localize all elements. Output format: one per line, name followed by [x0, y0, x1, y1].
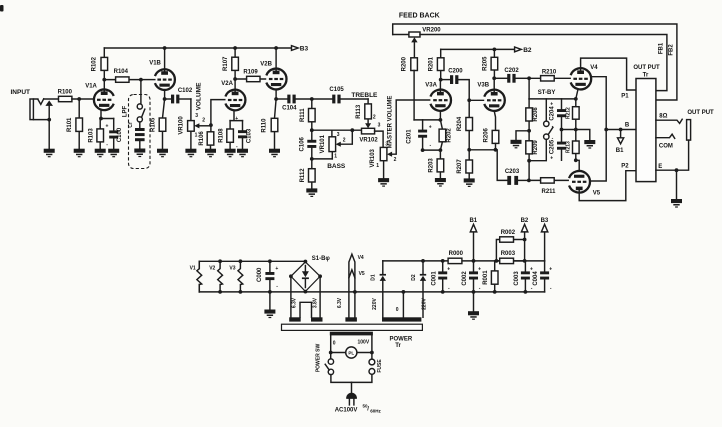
resistor R208	[526, 99, 539, 131]
node V1B cathode	[163, 97, 167, 101]
svg-text:Tr: Tr	[395, 343, 401, 349]
wire V4 cathode lead	[576, 89, 578, 99]
svg-text:2: 2	[343, 137, 346, 143]
svg-text:R201: R201	[429, 56, 435, 71]
wire 8-ohm tap	[656, 119, 682, 123]
node screen tie	[604, 128, 608, 132]
svg-text:V2: V2	[209, 266, 215, 272]
wiper arrow into VR102	[365, 123, 371, 128]
terminal B3	[544, 232, 546, 261]
switch ST-BY	[529, 99, 553, 161]
svg-text:VR101: VR101	[320, 134, 326, 153]
svg-text:R200: R200	[401, 56, 407, 71]
svg-text:R208: R208	[533, 107, 539, 122]
svg-text:2: 2	[373, 115, 376, 121]
svg-text:C100: C100	[117, 127, 123, 142]
svg-text:BASS: BASS	[327, 163, 346, 170]
svg-text:R100: R100	[58, 89, 73, 95]
input jack	[30, 99, 59, 120]
svg-text:R102: R102	[91, 56, 97, 71]
junction primary left	[329, 351, 333, 355]
wire to ground	[48, 120, 50, 149]
resistor R207	[457, 150, 472, 179]
svg-text:C103: C103	[247, 128, 253, 143]
node V5 grid network	[527, 179, 531, 183]
ground R101	[74, 149, 85, 158]
terminal B1	[473, 232, 475, 261]
svg-text:R002: R002	[501, 230, 516, 236]
ground standby	[511, 140, 522, 149]
junction R002 left	[495, 259, 499, 263]
wire bass node line	[312, 129, 362, 131]
ground PSU	[468, 311, 479, 320]
capacitor C105	[312, 87, 368, 103]
svg-text:R109: R109	[243, 69, 258, 75]
resistor R211	[529, 178, 568, 195]
B1 arrow terminal	[620, 130, 622, 138]
rectifier S1-B bridge	[291, 256, 331, 292]
svg-text:1: 1	[334, 154, 337, 160]
svg-text:LPF: LPF	[122, 106, 128, 118]
svg-text:3: 3	[195, 113, 198, 119]
svg-text:R112: R112	[300, 168, 306, 183]
ground C000	[264, 310, 275, 319]
svg-text:E: E	[658, 164, 662, 170]
svg-text:VR102: VR102	[359, 137, 378, 143]
svg-text:PL: PL	[348, 350, 354, 355]
switch LPF	[137, 104, 145, 122]
wire jack sleeve	[48, 106, 50, 120]
svg-text:V4: V4	[590, 65, 598, 71]
svg-text:C106: C106	[299, 136, 305, 151]
wire V2A cathode	[230, 110, 242, 120]
ground output	[671, 199, 682, 208]
resistor R107	[223, 48, 238, 79]
svg-text:V2B: V2B	[260, 61, 272, 67]
node V1A plate	[102, 78, 106, 82]
svg-text:C001: C001	[431, 271, 437, 286]
svg-text:+: +	[447, 266, 450, 272]
capacitor C001	[431, 261, 450, 292]
wire 6.3V/3.8V series link	[300, 302, 312, 317]
junction C000 bottom	[268, 290, 272, 294]
wire B+ rail	[383, 260, 545, 262]
resistor R202	[439, 120, 452, 150]
ground C100	[108, 149, 119, 158]
node R107 rail	[233, 46, 237, 50]
svg-text:Tr: Tr	[643, 72, 649, 78]
svg-text:FEED BACK: FEED BACK	[399, 12, 440, 19]
wire wiper to V2A grid	[211, 100, 225, 126]
wire V2A plate	[234, 79, 236, 90]
capacitor C200	[441, 68, 470, 100]
svg-text:AC100V: AC100V	[335, 407, 358, 413]
resistor R111	[300, 99, 315, 130]
resistor R100	[58, 89, 73, 101]
svg-text:1: 1	[195, 132, 198, 138]
svg-text:C105: C105	[329, 87, 344, 93]
junction R002 right	[523, 238, 527, 242]
svg-text:TREBLE: TREBLE	[351, 92, 378, 99]
svg-text:3.8V: 3.8V	[313, 297, 319, 308]
junction rail V2 bottom	[218, 290, 222, 294]
heater V1	[197, 261, 202, 292]
svg-text:R207: R207	[457, 159, 463, 174]
junction C001 top	[441, 259, 445, 263]
junction centre tap	[402, 290, 406, 294]
junction C000 top	[268, 259, 272, 263]
svg-text:R106: R106	[199, 131, 205, 146]
ground R105	[157, 149, 168, 158]
wire HT centre tap 0	[402, 292, 404, 317]
wire V4 screen	[591, 77, 606, 130]
resistor R204	[457, 100, 472, 150]
svg-text:2: 2	[394, 157, 397, 163]
wire E tap	[656, 140, 689, 170]
svg-text:D2: D2	[411, 274, 417, 281]
svg-text:POWER SW: POWER SW	[315, 344, 321, 373]
capacitor C000	[257, 261, 278, 292]
ground R103	[95, 149, 106, 158]
wire to V1B grid	[141, 79, 155, 81]
node B3 supply rail	[104, 47, 291, 49]
junction bridge AC2	[318, 274, 322, 278]
heater V3	[238, 261, 243, 292]
wire C000 ground stem	[269, 292, 271, 310]
svg-text:R210: R210	[542, 70, 557, 76]
svg-text:B3: B3	[300, 45, 309, 52]
junction rail V3 bottom	[239, 290, 243, 294]
svg-text:VR200: VR200	[422, 27, 441, 33]
winding 220-0-220	[382, 317, 421, 321]
svg-text:VR100: VR100	[179, 116, 185, 135]
svg-text:R001: R001	[483, 270, 489, 285]
svg-text:+: +	[478, 266, 481, 272]
junction rail V2 top	[218, 259, 222, 263]
node E ground	[675, 168, 679, 172]
potentiometer VR100 volume	[179, 99, 211, 149]
node VR101 wiper tie	[350, 128, 354, 132]
resistor R106	[199, 125, 214, 149]
wire R100 to V1A grid	[72, 98, 94, 100]
capacitor C103	[235, 116, 252, 150]
wire cathode ground bus	[562, 130, 590, 141]
jack tip contact arrow	[45, 100, 53, 106]
resistor R108	[218, 121, 233, 149]
wire ground stem	[473, 292, 475, 311]
node V4 cathode	[574, 97, 578, 101]
resistor R104	[104, 69, 141, 82]
wire V3A cathode	[414, 111, 440, 120]
svg-text:C201: C201	[406, 129, 412, 144]
resistor R109	[235, 69, 265, 81]
resistor R209	[526, 131, 539, 181]
svg-text:60Hz: 60Hz	[370, 409, 381, 414]
node jack sleeve	[47, 118, 51, 122]
capacitor C201	[406, 120, 431, 150]
capacitor C102	[165, 88, 193, 103]
B2 arrow terminal	[515, 47, 522, 52]
svg-text:+: +	[550, 155, 553, 161]
ground R112	[306, 188, 317, 197]
svg-text:B3: B3	[541, 218, 549, 224]
node bass bottom	[310, 157, 314, 161]
node standby bottom	[527, 159, 531, 163]
svg-text:MASTER VOLUME: MASTER VOLUME	[388, 96, 394, 149]
ground VR100	[185, 149, 196, 158]
svg-text:6.3V: 6.3V	[291, 297, 297, 308]
svg-text:C004: C004	[533, 271, 539, 286]
node PI divider	[467, 148, 471, 152]
wire into LPF	[140, 80, 142, 104]
svg-text:V2A: V2A	[221, 81, 233, 87]
svg-text:COM: COM	[659, 143, 673, 149]
svg-text:3: 3	[337, 132, 340, 138]
svg-text:+: +	[235, 116, 238, 122]
svg-text:ST-BY: ST-BY	[538, 90, 556, 96]
svg-text:FB2: FB2	[669, 44, 675, 56]
node VR100 wiper	[209, 123, 213, 127]
junction B1 node	[472, 259, 476, 263]
potentiometer VR103 master volume	[370, 100, 430, 178]
resistor R101	[67, 99, 82, 149]
svg-text:C104: C104	[282, 105, 297, 111]
junction C003 bottom	[524, 290, 528, 294]
svg-text:VOLUME: VOLUME	[195, 82, 202, 110]
junction D2 rail	[421, 259, 425, 263]
svg-text:R206: R206	[484, 127, 490, 142]
wire V5 screen	[590, 130, 606, 182]
resistor R112	[300, 159, 315, 189]
svg-text:D1: D1	[371, 274, 377, 281]
resistor R210	[529, 70, 570, 82]
pentode V4	[571, 65, 599, 90]
wire PI node	[469, 150, 507, 181]
junction primary right	[370, 351, 374, 355]
svg-text:0: 0	[333, 340, 336, 346]
node B2 supply rail	[441, 48, 515, 50]
capacitor C106	[299, 130, 316, 159]
capacitor C203	[505, 169, 529, 185]
wire PSU ground rail	[199, 291, 544, 293]
svg-text:C204: C204	[550, 106, 556, 121]
svg-text:R211: R211	[541, 189, 556, 195]
svg-text:+: +	[429, 124, 432, 130]
wire V4 plate to P1	[581, 58, 636, 90]
svg-text:8Ω: 8Ω	[659, 113, 667, 119]
wire V3B plate	[493, 78, 495, 89]
wire heater DC+ rail	[199, 261, 305, 292]
resistor R201	[429, 49, 444, 79]
svg-text:C202: C202	[504, 68, 519, 74]
svg-text:B1: B1	[469, 218, 477, 224]
wire feedback FB2 loop	[393, 24, 677, 100]
node R205 rail	[493, 48, 497, 52]
svg-text:V1B: V1B	[149, 60, 161, 66]
svg-text:FB1: FB1	[658, 42, 664, 54]
resistor R000	[448, 251, 464, 264]
triode V2B	[260, 61, 286, 89]
wire V3A plate lead	[439, 80, 441, 90]
pilot lamp PL	[331, 347, 372, 358]
svg-text:C203: C203	[505, 169, 520, 175]
svg-text:+: +	[549, 266, 552, 272]
svg-text:V1: V1	[190, 266, 196, 272]
svg-text:R108: R108	[218, 128, 224, 143]
LPF dashed enclosure	[129, 95, 151, 169]
output jack	[687, 120, 691, 141]
wire to chassis ground	[676, 170, 678, 199]
svg-text:B2: B2	[523, 47, 532, 54]
node V3A plate	[439, 78, 443, 82]
svg-text:+: +	[106, 124, 109, 130]
wire V5 plate to P2	[579, 171, 636, 201]
svg-text:S1-Bφ: S1-Bφ	[312, 256, 331, 262]
junction ground stem	[472, 290, 476, 294]
resistor R212	[565, 99, 579, 130]
svg-text:R104: R104	[114, 69, 129, 75]
svg-text:R101: R101	[67, 117, 73, 132]
resistor R105	[151, 99, 166, 149]
capacitor C202	[494, 68, 529, 83]
capacitor C100	[106, 119, 123, 149]
node R206 bottom	[494, 148, 498, 152]
ground VR103	[378, 178, 389, 187]
resistor R110	[262, 99, 278, 149]
node V2B cathode	[274, 97, 278, 101]
resistor R213	[565, 130, 579, 161]
ground C103	[237, 149, 248, 158]
triode V3B	[477, 83, 504, 111]
wire V3B cathode	[494, 111, 495, 130]
potentiometer VR102	[359, 123, 383, 148]
svg-text:6.3V: 6.3V	[337, 297, 343, 308]
switch POWER SW	[325, 353, 351, 383]
wire bridge AC legs	[291, 276, 320, 317]
svg-text:R113: R113	[356, 104, 362, 119]
svg-text:V3B: V3B	[477, 83, 489, 89]
B3 arrow terminal	[292, 46, 299, 51]
wire wiper to R200	[413, 42, 415, 57]
svg-text:V1A: V1A	[85, 83, 97, 89]
resistor R205	[482, 49, 497, 78]
resistor R203	[428, 150, 443, 178]
heater V2	[218, 261, 223, 292]
capacitor C204	[550, 99, 566, 130]
svg-text:R003: R003	[501, 251, 516, 257]
capacitor C205	[550, 130, 566, 162]
svg-text:0: 0	[396, 307, 399, 313]
svg-text:R105: R105	[151, 117, 157, 132]
ground R203	[435, 178, 446, 187]
wire V4 cathode rail	[529, 98, 576, 100]
node R212 bottom	[574, 128, 578, 132]
svg-text:V5: V5	[359, 271, 365, 277]
wire cathode network	[423, 149, 441, 151]
node bass top	[310, 128, 314, 132]
svg-text:R205: R205	[482, 56, 488, 71]
svg-text:C102: C102	[178, 88, 193, 94]
junction R001 bottom	[493, 290, 497, 294]
ground R207	[464, 178, 475, 187]
svg-text:+: +	[550, 101, 553, 107]
svg-text:V5: V5	[593, 190, 601, 196]
svg-text:INPUT: INPUT	[11, 89, 31, 96]
node B1 tap	[619, 128, 623, 132]
resistor R002	[496, 230, 524, 261]
svg-text:3: 3	[378, 123, 381, 129]
node V1A cathode	[99, 117, 103, 121]
ground input	[44, 149, 55, 158]
winding 6.3V power	[345, 317, 357, 321]
node V1B plate rail	[163, 46, 167, 50]
node tone stack top	[310, 97, 314, 101]
svg-text:R209: R209	[533, 140, 539, 155]
svg-text:B2: B2	[521, 218, 529, 224]
svg-text:V3A: V3A	[425, 83, 437, 89]
node V2A plate	[233, 77, 237, 81]
resistor R103	[88, 119, 103, 149]
svg-text:R204: R204	[457, 116, 463, 131]
svg-text:R107: R107	[223, 56, 229, 71]
ground R108	[225, 149, 236, 158]
wire COM tap	[656, 134, 675, 138]
winding 3.8V	[311, 317, 323, 321]
node V3A cathode	[439, 118, 443, 122]
svg-text:C205: C205	[550, 139, 556, 154]
resistor R113 treble	[356, 99, 376, 123]
svg-text:100V: 100V	[358, 340, 370, 346]
junction B2 node	[523, 259, 527, 263]
diode D1	[371, 261, 386, 317]
wire V1A cathode	[101, 110, 114, 119]
svg-text:R212: R212	[565, 107, 571, 119]
junction bridge DC+	[304, 260, 308, 264]
winding primary 0-100V	[330, 332, 373, 336]
winding 6.3V preamp	[289, 317, 301, 321]
svg-text:FUSE: FUSE	[377, 359, 383, 373]
transformer OUTPUT Tr	[636, 79, 656, 182]
svg-text:R213: R213	[565, 141, 571, 153]
capacitor C003	[514, 261, 533, 292]
triode V1A	[85, 83, 114, 110]
svg-text:V3: V3	[229, 266, 235, 272]
node C201 bottom	[421, 148, 425, 152]
node V3B grid	[467, 98, 471, 102]
node R101 tap	[77, 97, 81, 101]
node V5 cathode	[574, 158, 578, 162]
node R208/R209	[527, 129, 531, 133]
svg-text:+: +	[275, 266, 278, 272]
svg-text:C000: C000	[257, 267, 263, 282]
wire V2B cathode	[275, 89, 277, 99]
capacitor C104	[276, 95, 312, 112]
wire to standby ground	[516, 131, 529, 140]
wire V1B cathode	[164, 90, 166, 99]
svg-text:B: B	[625, 123, 630, 129]
svg-text:P2: P2	[621, 164, 629, 170]
fuse FUSE	[352, 353, 375, 383]
svg-text:R202: R202	[446, 128, 452, 143]
svg-text:OUT PUT: OUT PUT	[633, 65, 660, 71]
junction bridge DC-	[304, 290, 308, 294]
resistor R206	[484, 127, 499, 149]
capacitor C004	[533, 261, 552, 292]
svg-text:V4: V4	[358, 255, 364, 261]
capacitor C002	[462, 261, 481, 292]
ground output cathodes	[584, 140, 595, 149]
ground R110	[269, 149, 280, 158]
